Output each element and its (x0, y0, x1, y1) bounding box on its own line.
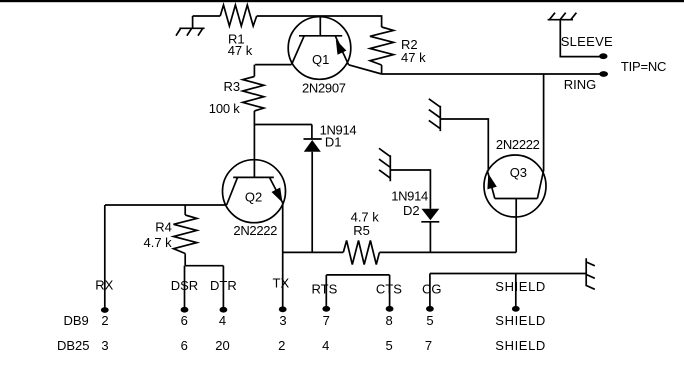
wire CTS drop (389, 275, 391, 309)
wire R4 top lead (184, 205, 186, 215)
svg-text:Q2: Q2 (245, 190, 262, 205)
svg-text:Q1: Q1 (312, 52, 329, 67)
svg-text:SHIELD: SHIELD (495, 313, 545, 328)
svg-text:SHIELD: SHIELD (495, 279, 545, 294)
node CTS terminal dot (386, 306, 394, 312)
svg-text:RX: RX (95, 278, 113, 293)
wire R3 bottom to Q2 base bar (253, 111, 255, 177)
transistor Q2 collector slant (227, 177, 238, 205)
resistor R4 (174, 215, 197, 254)
wire R2 bottom lead (381, 65, 383, 74)
node DSR terminal dot (181, 307, 189, 313)
wire Q1 emitter to R2 bottom (diagonal) (349, 65, 382, 74)
svg-text:2N2907: 2N2907 (302, 81, 346, 96)
node TX terminal dot (279, 306, 287, 312)
resistor R3 (243, 77, 264, 111)
svg-text:R5: R5 (353, 223, 370, 238)
diode D2 cathode bar (421, 221, 439, 223)
top border frame line (0, 0, 684, 2)
transistor Q1 collector slant (292, 36, 305, 65)
wire R4 bottom lead (184, 254, 186, 266)
node RTS terminal dot (322, 306, 330, 312)
svg-text:R4: R4 (155, 220, 172, 235)
diode D1 triangle (304, 140, 321, 152)
wire D2 cathode lead to TX rail (429, 222, 431, 253)
ground G3 (above D2) (379, 148, 391, 181)
svg-text:5: 5 (426, 313, 433, 328)
transistor Q2 circle (223, 160, 286, 223)
transistor Q1 base lead (319, 16, 321, 36)
svg-text:DTR: DTR (210, 278, 237, 293)
transistor Q3 emitter arrow (NPN, points outward up-left) (487, 174, 496, 190)
svg-text:47 k: 47 k (228, 43, 253, 58)
wire SLEEVE from ground (560, 20, 600, 57)
transistor Q3 base lead down to TX rail (515, 199, 517, 253)
svg-text:8: 8 (385, 313, 392, 328)
wire CG drop (429, 274, 431, 309)
wire CG-SHIELD bracket to chassis (430, 273, 586, 275)
wire Q2 emitter / TX drop (282, 204, 284, 310)
svg-text:SHIELD: SHIELD (495, 338, 545, 353)
transistor Q2 base bar (233, 176, 274, 178)
svg-text:4.7 k: 4.7 k (144, 235, 173, 250)
wire G3 to D2 anode (390, 170, 430, 209)
wire ground G1 riser to top rail (192, 16, 194, 28)
svg-text:3: 3 (101, 338, 108, 353)
svg-text:6: 6 (181, 338, 188, 353)
wire DTR drop (222, 266, 224, 309)
diode D2 triangle (422, 209, 440, 221)
wire RING rail (382, 73, 601, 75)
transistor Q2 emitter arrow (NPN, points outward) (272, 188, 283, 203)
svg-text:47 k: 47 k (401, 50, 426, 65)
svg-text:1N914: 1N914 (391, 189, 428, 204)
wire node junction to D1 (254, 124, 312, 126)
wire SHIELD drop (515, 274, 517, 309)
svg-text:RING: RING (564, 77, 597, 92)
transistor Q3 circle (484, 155, 546, 217)
ground G4 (Q3 emitter) (429, 99, 441, 131)
wire RTS drop (325, 275, 327, 309)
wire D1 anode lead down to TX rail (311, 152, 313, 253)
node RX terminal dot (101, 307, 109, 313)
node DTR terminal dot (220, 307, 228, 313)
node RING terminal dot (599, 71, 608, 77)
wire D1 cathode lead (311, 125, 313, 140)
svg-text:2N2222: 2N2222 (233, 223, 277, 238)
transistor Q3 collector slant (537, 171, 543, 199)
wire R3 top lead (253, 65, 255, 77)
svg-text:2: 2 (278, 338, 285, 353)
svg-text:3: 3 (279, 313, 286, 328)
wire G4 to Q3 emitter (440, 119, 488, 170)
wire DSR-DTR bracket (185, 265, 223, 267)
resistor R2 (370, 27, 394, 65)
transistor Q1 base bar (299, 35, 342, 37)
ground G5 (SHIELD chassis) (586, 258, 595, 289)
svg-text:4: 4 (322, 338, 329, 353)
svg-text:DB9: DB9 (64, 313, 89, 328)
svg-text:RTS: RTS (312, 282, 338, 297)
wire Q1 collector horizontal (255, 64, 291, 66)
wire top rail left segment (193, 15, 221, 17)
svg-text:20: 20 (215, 338, 229, 353)
ground G2 (SLEEVE) (548, 13, 577, 20)
wire TX rail (base rail) left segment (283, 251, 344, 253)
svg-text:2N2222: 2N2222 (496, 137, 540, 152)
svg-text:TX: TX (273, 276, 290, 291)
svg-text:CG: CG (422, 282, 442, 297)
resistor R5 (343, 241, 379, 265)
wire Q2 collector to RX (105, 204, 227, 206)
resistor R1 (220, 5, 257, 26)
svg-text:7: 7 (323, 313, 330, 328)
transistor Q1 circle (288, 17, 351, 80)
transistor Q3 emitter slant (487, 170, 495, 198)
svg-text:100 k: 100 k (209, 101, 241, 116)
transistor Q1 emitter slant (335, 36, 348, 65)
node CG terminal dot (426, 306, 434, 312)
node SLEEVE terminal dot (599, 53, 607, 59)
svg-text:D1: D1 (325, 135, 342, 150)
svg-text:SLEEVE: SLEEVE (561, 34, 613, 49)
svg-text:6: 6 (181, 313, 188, 328)
svg-text:DSR: DSR (171, 278, 198, 293)
diode D1 cathode bar (304, 138, 322, 140)
ground G1 (left of R1) (176, 28, 205, 35)
svg-text:CTS: CTS (376, 282, 402, 297)
wire RTS-CTS bracket (326, 274, 389, 276)
svg-text:R3: R3 (224, 79, 241, 94)
transistor Q3 base bar (495, 198, 538, 200)
wire RX drop (104, 205, 106, 309)
node SHIELD terminal dot (512, 306, 520, 312)
svg-text:DB25: DB25 (57, 338, 90, 353)
wire top rail to R2 (257, 16, 382, 27)
wire DSR drop (184, 266, 186, 309)
svg-text:7: 7 (425, 338, 432, 353)
transistor Q1 emitter arrow (PNP, points toward base) (336, 40, 347, 55)
svg-text:D2: D2 (403, 203, 420, 218)
wire Q3 collector up to RING rail (543, 74, 545, 171)
wire TX rail right segment to Q3 base (379, 251, 516, 253)
svg-text:TIP=NC: TIP=NC (621, 59, 667, 74)
svg-text:2: 2 (101, 313, 108, 328)
svg-text:Q3: Q3 (510, 165, 527, 180)
svg-text:4: 4 (219, 313, 226, 328)
svg-text:5: 5 (385, 338, 392, 353)
transistor Q2 emitter slant (270, 177, 284, 203)
